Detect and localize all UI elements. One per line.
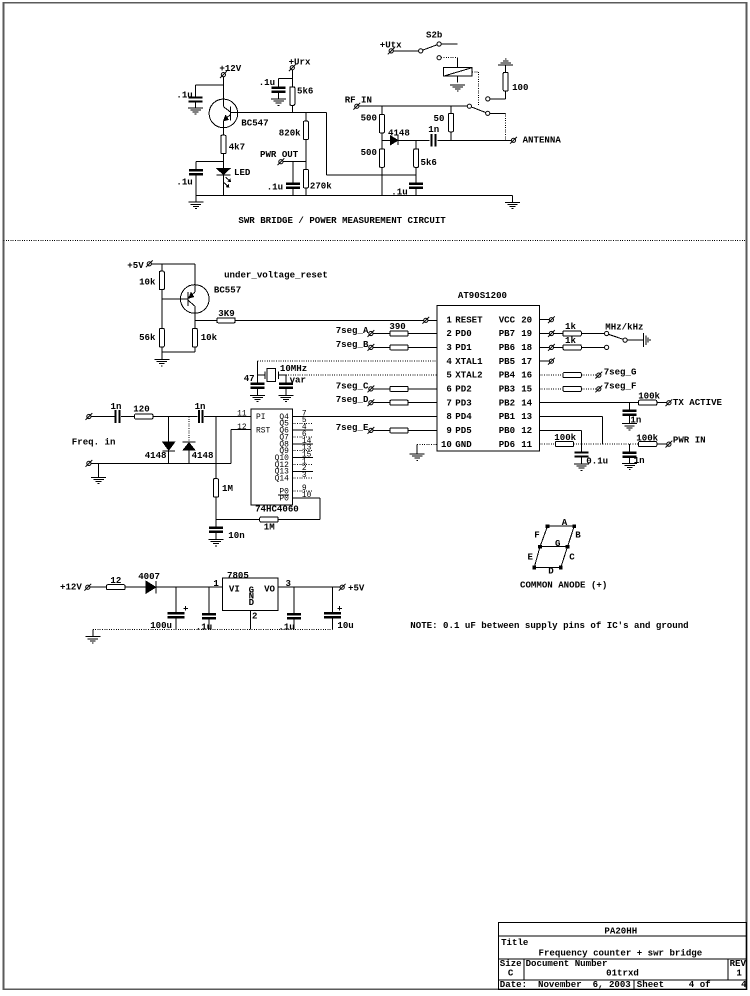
wire 10n bottom lead bbox=[215, 533, 217, 539]
resistor 5k6 pullup bbox=[290, 87, 295, 106]
wire 1n PWR lead bbox=[629, 444, 631, 452]
wire Q4 to PD4 bbox=[292, 416, 437, 418]
capacitor 47 bbox=[251, 382, 265, 384]
wire freq return rail bbox=[91, 462, 231, 464]
wire resistor to pin E bbox=[408, 429, 437, 431]
wire drop to antenna rail bbox=[505, 113, 507, 140]
wire 10u ground lead bbox=[332, 618, 334, 629]
svg-text:VO: VO bbox=[264, 584, 275, 595]
capacitor 10n bbox=[209, 527, 223, 529]
svg-text:17: 17 bbox=[521, 356, 532, 367]
wire pin10 GND bbox=[417, 443, 437, 445]
terminal 7seg_D bbox=[369, 401, 373, 405]
svg-text:7seg_A: 7seg_A bbox=[336, 325, 369, 336]
resistor 10k lower bbox=[192, 328, 197, 347]
LED D1 bbox=[216, 161, 230, 195]
wire 1M bottom lead bbox=[215, 497, 217, 528]
resistor 500 lower bbox=[379, 149, 384, 168]
wire ground stub left bbox=[195, 196, 197, 202]
wire return up to RST bbox=[230, 430, 232, 464]
svg-text:500: 500 bbox=[361, 113, 377, 124]
section separator dotted line bbox=[4, 239, 747, 241]
title block frame bbox=[498, 923, 746, 990]
terminal +12V bbox=[221, 73, 225, 77]
terminal 7seg_E bbox=[369, 428, 373, 432]
capacitor C3 .1u bbox=[272, 86, 286, 88]
terminal 7seg_B bbox=[369, 345, 373, 349]
svg-text:RST: RST bbox=[256, 426, 270, 435]
wire 100u lead bbox=[175, 587, 177, 612]
ground below C3 bbox=[271, 98, 286, 100]
wire +5V rail bbox=[151, 263, 194, 265]
wire uvr ground rail bbox=[162, 351, 195, 353]
wire Q2 collector down bbox=[194, 313, 196, 320]
svg-text:PB1: PB1 bbox=[499, 411, 516, 422]
wire to PWR node bbox=[603, 443, 639, 445]
capacitor 1n input A bbox=[115, 410, 117, 423]
relay K1 coil bbox=[444, 68, 472, 76]
contact NC 100 bbox=[486, 97, 490, 101]
contact S2b lower bbox=[437, 56, 441, 60]
ground below relay bbox=[450, 84, 465, 86]
resistor 100k PWR bbox=[639, 442, 657, 447]
wire psu ground rail bbox=[93, 629, 333, 631]
svg-text:PD1: PD1 bbox=[455, 342, 472, 353]
wire 1k to contact bbox=[581, 346, 604, 348]
resistor 500 upper bbox=[379, 114, 384, 132]
resistor 4k7 bbox=[221, 135, 226, 154]
wire .1u B ground lead bbox=[293, 619, 295, 629]
wire psu 3 bbox=[157, 586, 223, 588]
wire 100k to port TX bbox=[657, 402, 667, 404]
wire Q14 stub bbox=[292, 477, 313, 479]
wire +5V to Q2 bbox=[194, 264, 196, 285]
svg-text:+12V: +12V bbox=[60, 582, 82, 593]
wire 5k6b top stub bbox=[415, 140, 417, 149]
wire freq in 1 bbox=[91, 416, 114, 418]
terminal +5V out bbox=[340, 585, 344, 589]
transistor Q2 BC557 bbox=[181, 285, 210, 314]
svg-text:PD4: PD4 bbox=[455, 411, 472, 422]
wire 500a top stub bbox=[381, 106, 383, 114]
wire VCC stub bbox=[539, 319, 549, 321]
wire 1n PWR ground lead bbox=[629, 458, 631, 463]
wire 4148b anode lead bbox=[188, 450, 190, 463]
svg-text:.1u: .1u bbox=[176, 90, 192, 101]
svg-text:10MHz: 10MHz bbox=[280, 363, 307, 374]
wire PB0 down bbox=[581, 430, 583, 444]
svg-text:PB5: PB5 bbox=[499, 356, 515, 367]
svg-text:PB0: PB0 bbox=[499, 425, 515, 436]
wire 5k6b to C5 bbox=[415, 167, 417, 184]
svg-text:ANTENNA: ANTENNA bbox=[523, 135, 562, 146]
wire relay top lead bbox=[456, 58, 458, 68]
svg-text:D: D bbox=[249, 597, 255, 608]
svg-text:F: F bbox=[534, 530, 539, 541]
wire C1 bottom lead bbox=[195, 103, 197, 108]
svg-text:PI: PI bbox=[256, 413, 265, 422]
wire RST pin bbox=[231, 429, 251, 431]
svg-text:Frequency counter + swr bridge: Frequency counter + swr bridge bbox=[539, 948, 703, 959]
svg-text:var: var bbox=[290, 374, 306, 385]
wire TX cap lead bbox=[629, 403, 631, 410]
wire PB4 to res bbox=[539, 374, 563, 376]
wire C2 top lead bbox=[195, 161, 197, 170]
svg-text:2: 2 bbox=[252, 611, 257, 622]
wire freq in 2 bbox=[121, 416, 135, 418]
wire P0bar to 1M bbox=[278, 519, 320, 521]
IC U3 7805 box bbox=[223, 578, 279, 610]
wire res to port F bbox=[581, 388, 597, 390]
terminal PB5 port bbox=[549, 359, 553, 363]
svg-text:7seg_B: 7seg_B bbox=[336, 339, 369, 350]
wire var ground lead bbox=[285, 389, 287, 395]
wire C4 lead bbox=[292, 162, 294, 184]
wire detector rail left bbox=[382, 139, 390, 141]
svg-text:Title: Title bbox=[501, 937, 529, 948]
wire XTAL1 bbox=[258, 360, 438, 362]
svg-text:.1u: .1u bbox=[196, 621, 212, 632]
terminal +Urx bbox=[290, 66, 294, 70]
wire Q7 stub bbox=[292, 436, 313, 438]
capacitor var bbox=[279, 382, 293, 384]
svg-text:13: 13 bbox=[521, 411, 532, 422]
svg-text:120: 120 bbox=[133, 403, 149, 414]
resistor 1M feedback bbox=[260, 517, 278, 522]
diode 4148 clamp A bbox=[162, 442, 175, 451]
overline P0 bbox=[278, 494, 289, 496]
svg-text:PD0: PD0 bbox=[455, 328, 471, 339]
wire xtal1 drop bbox=[257, 361, 259, 383]
svg-text:4k7: 4k7 bbox=[229, 142, 245, 153]
wire 50 bottom stub bbox=[450, 132, 452, 141]
svg-text:1: 1 bbox=[736, 968, 742, 979]
ground SWR left bbox=[188, 201, 203, 203]
wire psu 2 bbox=[125, 586, 146, 588]
switch antenna relay contact bbox=[467, 104, 490, 115]
svg-text:100k: 100k bbox=[636, 432, 658, 443]
svg-text:PD2: PD2 bbox=[455, 384, 471, 395]
ground psu bbox=[85, 636, 100, 638]
wire resistor to pin A bbox=[408, 333, 437, 335]
resistor 1k B bbox=[563, 345, 581, 350]
capacitor 1n TX bbox=[623, 410, 637, 412]
svg-text:500: 500 bbox=[361, 147, 377, 158]
wire P0bar down bbox=[319, 498, 321, 520]
wire resistor to pin C bbox=[408, 388, 437, 390]
wire 0.1u lead bbox=[581, 444, 583, 451]
ground 1n TX bbox=[622, 423, 637, 425]
wire PWR OUT bbox=[283, 161, 306, 163]
wire PB1 right bbox=[539, 416, 602, 418]
svg-text:4148: 4148 bbox=[145, 450, 167, 461]
svg-text:1M: 1M bbox=[264, 522, 275, 533]
svg-text:11: 11 bbox=[237, 409, 247, 418]
capacitor 1n PWR bbox=[623, 452, 637, 454]
svg-text:01trxd: 01trxd bbox=[606, 968, 639, 979]
terminal RF IN bbox=[355, 104, 359, 108]
resistor 5k6 detector bbox=[414, 149, 419, 168]
svg-text:S2b: S2b bbox=[426, 29, 443, 40]
svg-text:Freq. in: Freq. in bbox=[72, 436, 116, 447]
svg-text:4148: 4148 bbox=[388, 127, 410, 138]
wire 820k to PWR OUT node bbox=[305, 140, 307, 162]
svg-text:56k: 56k bbox=[139, 332, 156, 343]
transistor Q1 BC547 bbox=[209, 99, 238, 128]
wire 50 top stub bbox=[450, 106, 452, 113]
wire collector node down bbox=[194, 320, 196, 328]
terminal +12V psu bbox=[86, 585, 90, 589]
resistor 120 bbox=[135, 414, 153, 419]
capacitor 100u plus sign bbox=[183, 607, 188, 609]
svg-text:8: 8 bbox=[446, 411, 451, 422]
resistor 820k bbox=[303, 121, 308, 140]
wire 3K9 left bbox=[195, 319, 217, 321]
svg-text:7805: 7805 bbox=[227, 570, 249, 581]
wire pin10 down bbox=[416, 444, 418, 453]
svg-text:20: 20 bbox=[521, 314, 532, 325]
wire node to PB1 drop bbox=[582, 443, 603, 445]
wire resistor to pin D bbox=[408, 402, 437, 404]
svg-text:1n: 1n bbox=[428, 124, 439, 135]
capacitor 1n series bbox=[430, 134, 432, 147]
terminal 7seg_C bbox=[369, 387, 373, 391]
svg-text:+5V: +5V bbox=[348, 583, 365, 594]
svg-text:3: 3 bbox=[446, 342, 451, 353]
svg-text:C: C bbox=[569, 551, 575, 562]
wire var drop bbox=[285, 375, 287, 382]
ground above 100 bbox=[498, 64, 513, 66]
svg-text:10: 10 bbox=[441, 439, 452, 450]
svg-text:7seg_F: 7seg_F bbox=[604, 380, 637, 391]
wire 10k top stub bbox=[161, 264, 163, 271]
svg-text:VCC: VCC bbox=[499, 314, 516, 325]
capacitor C4 .1u bbox=[286, 182, 300, 184]
wire freq in 4 bbox=[204, 416, 251, 418]
resistor 390 C bbox=[390, 386, 408, 391]
wire res to port G bbox=[581, 374, 597, 376]
wire ground stub right bbox=[512, 196, 514, 202]
wire psu 1 bbox=[90, 586, 107, 588]
wire P0 stub bbox=[292, 490, 313, 492]
svg-text:10k: 10k bbox=[139, 276, 156, 287]
resistor 390 E bbox=[390, 428, 408, 433]
terminal PWR OUT bbox=[279, 160, 283, 164]
svg-text:100k: 100k bbox=[554, 432, 576, 443]
wire C3 bottom lead bbox=[278, 93, 280, 99]
svg-text:16: 16 bbox=[521, 370, 532, 381]
terminal VCC port bbox=[549, 318, 553, 322]
svg-text:7: 7 bbox=[446, 397, 451, 408]
wire 4148a anode lead bbox=[168, 417, 170, 442]
capacitor C5 .1u bbox=[409, 183, 423, 185]
ground UVR bbox=[154, 359, 169, 361]
wire 10k bottom stub bbox=[194, 347, 196, 352]
wire XTAL2 bbox=[286, 374, 437, 376]
capacitor 1n input B bbox=[198, 410, 200, 423]
wire PB1 down bbox=[602, 417, 604, 445]
wire 0.1u ground lead bbox=[581, 458, 583, 464]
svg-text:1k: 1k bbox=[565, 321, 576, 332]
svg-text:5k6: 5k6 bbox=[297, 85, 313, 96]
wire 500b bottom lead bbox=[381, 167, 383, 195]
capacitor C2 .1u bbox=[189, 169, 203, 171]
wire relay linkage vertical bbox=[477, 72, 479, 105]
svg-text:3: 3 bbox=[302, 471, 307, 480]
wire PB5 stub bbox=[539, 360, 549, 362]
svg-text:1n: 1n bbox=[195, 401, 206, 412]
resistor 390 A bbox=[390, 331, 408, 336]
wire 1M feedback left bbox=[216, 519, 260, 521]
svg-text:Date: November 6, 2003: Date: November 6, 2003 bbox=[500, 979, 631, 990]
terminal PB6 port bbox=[549, 345, 553, 349]
wire PB6 stub bbox=[539, 346, 549, 348]
svg-text:1: 1 bbox=[213, 578, 219, 589]
wire 500a bottom stub bbox=[381, 133, 383, 140]
svg-text:P0: P0 bbox=[279, 495, 289, 504]
wire switch to ground bbox=[627, 339, 643, 341]
svg-text:18: 18 bbox=[521, 342, 532, 353]
7-segment display figure bbox=[532, 524, 576, 569]
wire 7seg_D to resistor bbox=[373, 402, 390, 404]
wire Q9 stub bbox=[292, 450, 313, 452]
svg-text:RF IN: RF IN bbox=[345, 94, 372, 105]
svg-text:15: 15 bbox=[521, 384, 532, 395]
wire +Urx to 5k6 bbox=[291, 70, 293, 87]
svg-text:PD3: PD3 bbox=[455, 397, 471, 408]
wire TX cap ground lead bbox=[629, 416, 631, 424]
wire C2 bottom lead bbox=[195, 176, 197, 196]
svg-text:GND: GND bbox=[455, 439, 472, 450]
wire branch to C3 bbox=[279, 77, 293, 79]
svg-text:XTAL1: XTAL1 bbox=[455, 356, 483, 367]
svg-text:4: 4 bbox=[741, 979, 747, 990]
svg-text:PD5: PD5 bbox=[455, 425, 471, 436]
svg-text:100: 100 bbox=[512, 82, 528, 93]
wire drop to 5k6 bottom bbox=[326, 174, 416, 176]
resistor 1k A bbox=[563, 331, 581, 336]
wire .1u A ground lead bbox=[208, 619, 210, 629]
svg-text:100k: 100k bbox=[638, 391, 660, 402]
svg-text:PB6: PB6 bbox=[499, 342, 515, 353]
svg-text:5k6: 5k6 bbox=[421, 157, 437, 168]
resistor 100k PD6 bbox=[555, 442, 573, 447]
svg-text:NOTE: 0.1 uF between supply pi: NOTE: 0.1 uF between supply pins of IC's… bbox=[410, 620, 688, 631]
wire 100 bottom stub bbox=[505, 91, 507, 99]
contact kHz open bbox=[605, 345, 609, 349]
svg-text:PA20HH: PA20HH bbox=[604, 925, 637, 936]
wire PB7 to 1k bbox=[554, 333, 564, 335]
svg-text:1n: 1n bbox=[634, 455, 645, 466]
svg-text:7seg_G: 7seg_G bbox=[604, 367, 637, 378]
wire ground stub uvr bbox=[161, 352, 163, 359]
wire PB6 to 1k bbox=[554, 346, 564, 348]
terminal PWR IN bbox=[667, 442, 671, 446]
wire 7805 gnd pin bbox=[250, 610, 252, 629]
wire contact to relay bbox=[441, 57, 457, 59]
wire 4k7 to LED node bbox=[222, 154, 224, 162]
wire PB2 TX rail bbox=[539, 402, 638, 404]
switch MHz/kHz bbox=[605, 331, 628, 342]
switch S2b bbox=[419, 42, 458, 53]
ground 0.1u bbox=[574, 463, 589, 465]
wire 100 to contact bbox=[490, 98, 506, 100]
wire PB0 right bbox=[539, 429, 581, 431]
wire 270k top stub bbox=[305, 162, 307, 170]
resistor 56k bbox=[159, 328, 164, 347]
wire SWR ground bus bbox=[196, 195, 513, 197]
resistor 100k TX bbox=[639, 400, 657, 405]
terminal PB7 port bbox=[549, 331, 553, 335]
svg-text:PD6: PD6 bbox=[499, 439, 515, 450]
crystal Y1 10MHz bbox=[258, 369, 286, 382]
svg-text:Document Number: Document Number bbox=[526, 958, 608, 969]
wire 7seg_B to resistor bbox=[373, 346, 390, 348]
svg-text:BC547: BC547 bbox=[241, 118, 268, 129]
svg-text:74HC4060: 74HC4060 bbox=[255, 503, 299, 514]
wire 100u ground lead bbox=[175, 618, 177, 629]
svg-text:7seg_D: 7seg_D bbox=[336, 394, 369, 405]
wire port to pin1 bbox=[428, 319, 437, 321]
ground 10n bbox=[208, 539, 223, 541]
ground AT90 bbox=[410, 453, 425, 455]
wire 820k top stub bbox=[305, 113, 307, 122]
svg-text:VI: VI bbox=[229, 584, 240, 595]
wire diode to cap bbox=[399, 139, 430, 141]
svg-text:.1u: .1u bbox=[267, 182, 283, 193]
wire +12V to Q1 collector bbox=[222, 77, 224, 100]
svg-text:PB2: PB2 bbox=[499, 397, 515, 408]
wire Q8 stub bbox=[292, 443, 313, 445]
svg-text:12: 12 bbox=[110, 575, 121, 586]
svg-text:9: 9 bbox=[446, 425, 451, 436]
ground below C1 bbox=[188, 107, 203, 109]
wire LED node to C2 bbox=[196, 160, 224, 162]
wire 7seg_A to resistor bbox=[373, 333, 390, 335]
svg-text:4: 4 bbox=[446, 356, 452, 367]
svg-text:.1u: .1u bbox=[176, 176, 192, 187]
wire C5 bottom lead bbox=[415, 189, 417, 196]
svg-text:AT90S1200: AT90S1200 bbox=[458, 290, 507, 301]
wire 10u lead bbox=[332, 587, 334, 612]
svg-text:PB4: PB4 bbox=[499, 370, 516, 381]
wire 4148b cathode lead bbox=[188, 417, 190, 442]
svg-text:1: 1 bbox=[446, 314, 452, 325]
svg-text:7seg_E: 7seg_E bbox=[336, 422, 369, 433]
wire RF IN rail bbox=[359, 105, 468, 107]
svg-text:TX ACTIVE: TX ACTIVE bbox=[673, 397, 723, 408]
wire freq in 3 bbox=[153, 416, 198, 418]
resistor 390 B bbox=[390, 345, 408, 350]
ground SWR right bbox=[505, 201, 520, 203]
wire 5k6 to base rail bbox=[291, 105, 293, 112]
svg-text:PB3: PB3 bbox=[499, 384, 515, 395]
wire ground to 100 bbox=[505, 65, 507, 72]
svg-text:3K9: 3K9 bbox=[218, 308, 234, 319]
terminal +5V bbox=[147, 262, 151, 266]
svg-text:.1u: .1u bbox=[391, 187, 407, 198]
svg-text:E: E bbox=[528, 551, 534, 562]
wire P0bar right bbox=[292, 497, 320, 499]
wire Q5 stub bbox=[292, 422, 313, 424]
wire 100k to node bbox=[574, 443, 582, 445]
wire 270k bottom stub bbox=[305, 188, 307, 196]
svg-text:BC557: BC557 bbox=[214, 284, 241, 295]
wire 7seg_C to resistor bbox=[373, 388, 390, 390]
ground 47 bbox=[250, 394, 265, 396]
capacitor .1u psu A bbox=[202, 613, 216, 615]
svg-text:4007: 4007 bbox=[138, 571, 160, 582]
